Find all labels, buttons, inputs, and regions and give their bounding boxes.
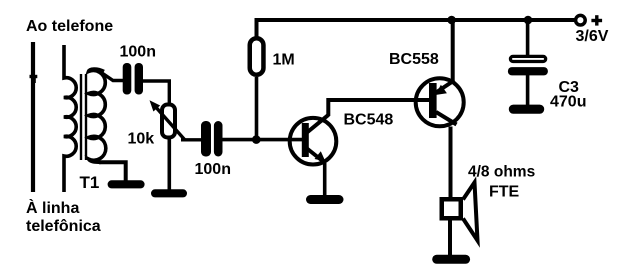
- wire: top supply rail with 1M top lead: [257, 20, 576, 38]
- wire: C3 to ground: [526, 75, 530, 106]
- BC548 collector diagonal: [307, 115, 329, 133]
- wire: C1 to potentiometer top: [143, 81, 169, 105]
- svg-text:T1: T1: [80, 173, 100, 192]
- BC558 base bar: [429, 83, 437, 118]
- BC548 emitter arrowhead: [315, 151, 326, 161]
- junction node at base of BC548: [252, 135, 261, 144]
- wire: secondary bottom to ground: [99, 162, 126, 181]
- wire: rail to C3 top plate: [526, 20, 530, 56]
- capacitor C3 negative plate (solid): [508, 67, 548, 75]
- svg-text:FTE: FTE: [489, 183, 520, 200]
- svg-text:BC548: BC548: [344, 112, 394, 129]
- ground under T1: [108, 180, 145, 188]
- junction node on rail at BC558: [447, 16, 456, 25]
- wire: BC548 collector up and right to BC558 base: [328, 100, 430, 116]
- capacitor C3 positive plate (hollow): [510, 56, 545, 61]
- transistor Q2 BC558 circle: [416, 78, 464, 126]
- svg-text:100n: 100n: [120, 43, 156, 60]
- BC558 collector diagonal: [436, 112, 457, 125]
- svg-text:BC558: BC558: [389, 51, 439, 68]
- wire: pot bottom to ground: [168, 138, 172, 190]
- BC548 emitter diagonal: [307, 149, 325, 163]
- wire: speaker to ground: [448, 219, 452, 257]
- transistor Q1 BC548 circle: [290, 118, 337, 165]
- svg-text:3/6V: 3/6V: [576, 28, 609, 45]
- ground under speaker: [432, 255, 470, 264]
- transformer T1 primary winding with leads: [64, 45, 76, 192]
- svg-text:telefônica: telefônica: [26, 218, 101, 235]
- potentiometer wiper arrowhead: [150, 100, 161, 111]
- label +: [591, 19, 602, 22]
- junction node on rail at C3: [524, 16, 533, 25]
- BC558 emitter diagonal: [436, 80, 455, 92]
- resistor 1M body: [250, 38, 264, 75]
- BC558 emitter arrowhead: [435, 85, 447, 95]
- wire: BC548 emitter to ground: [323, 163, 327, 196]
- supply terminal circle: [576, 15, 586, 25]
- wire: C2 to BC548 base: [223, 138, 304, 142]
- capacitor C1 100n plates: [123, 63, 132, 95]
- svg-text:10k: 10k: [128, 130, 155, 147]
- svg-text:1M: 1M: [273, 51, 295, 68]
- speaker cone: [463, 183, 478, 241]
- ground under potentiometer: [151, 189, 187, 197]
- transformer T1 core lines: [81, 74, 86, 160]
- wire: wiper to capacitor C2: [181, 138, 202, 141]
- svg-text:À linha: À linha: [26, 198, 79, 217]
- potentiometer 10k body: [162, 105, 175, 138]
- BC548 base bar: [302, 123, 309, 157]
- wire: 1M bottom lead to junction: [255, 77, 259, 140]
- ground under BC548: [306, 195, 344, 204]
- ground under C3: [509, 105, 544, 114]
- svg-text:100n: 100n: [195, 161, 231, 178]
- wire: left telephone line conductor: [31, 42, 35, 192]
- tick mark on left conductor: [30, 75, 38, 78]
- svg-text:Ao telefone: Ao telefone: [26, 18, 113, 35]
- svg-text:4/8 ohms: 4/8 ohms: [468, 164, 535, 181]
- wire: secondary top to capacitor C1: [102, 73, 124, 81]
- potentiometer wiper diagonal: [154, 105, 185, 140]
- capacitor C2 100n plates: [201, 121, 211, 157]
- speaker FTE box: [442, 199, 461, 218]
- wire: BC558 collector down to speaker: [449, 127, 453, 200]
- transformer T1 secondary winding: [89, 69, 106, 162]
- wire: BC558 emitter to supply rail: [451, 20, 455, 81]
- svg-text:470u: 470u: [550, 94, 586, 111]
